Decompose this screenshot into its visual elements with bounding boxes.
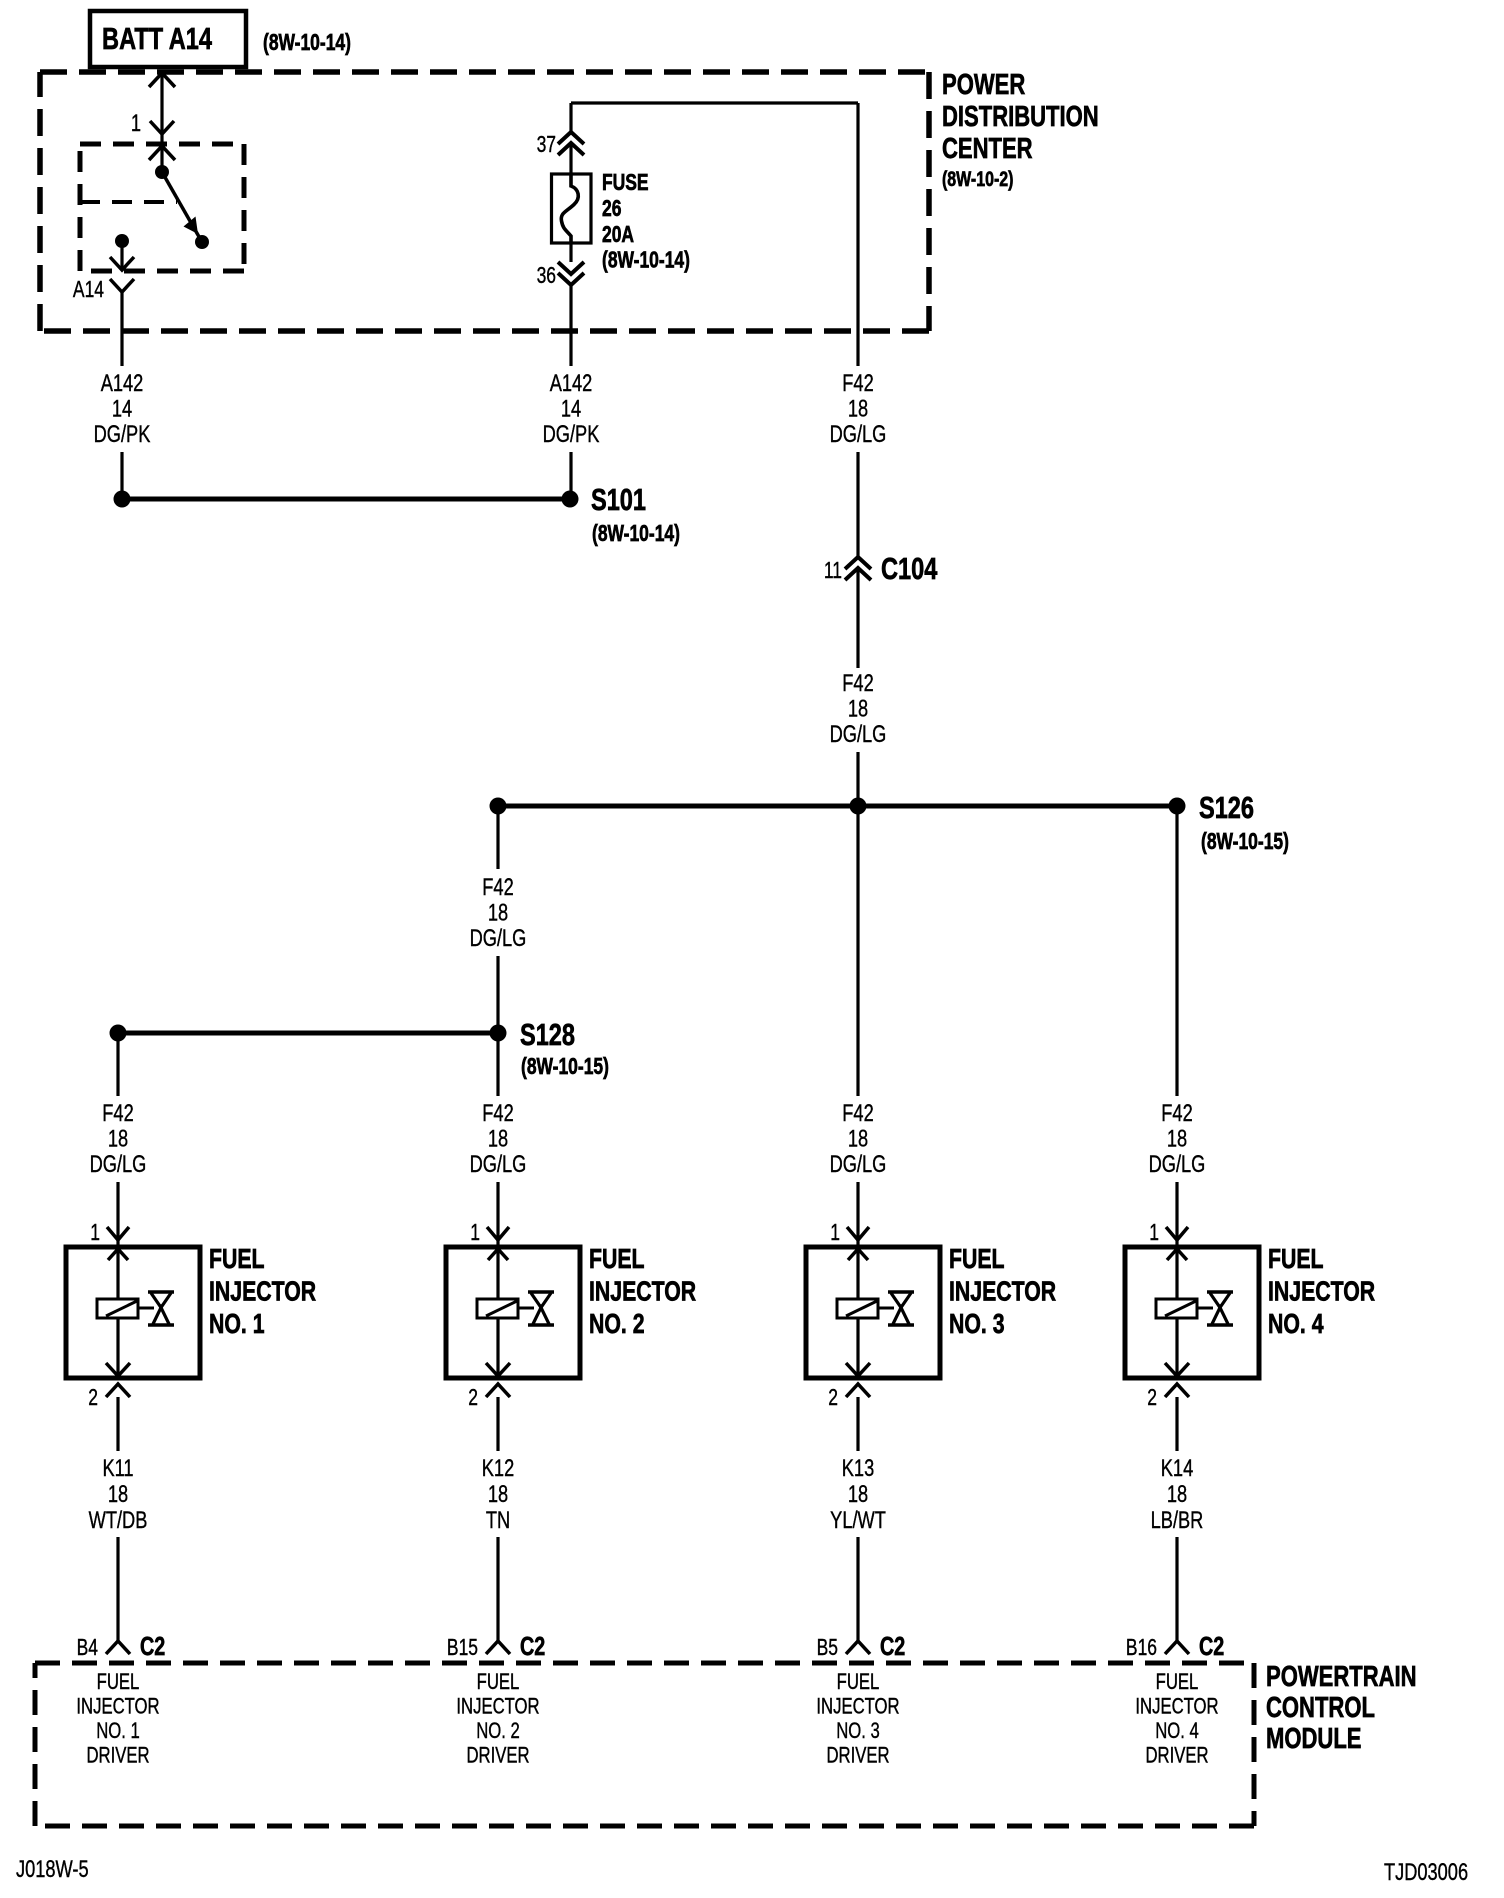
svg-text:C2: C2 [520,1631,545,1660]
svg-text:NO. 1: NO. 1 [96,1719,140,1744]
svg-text:(8W-10-14): (8W-10-14) [592,522,680,547]
svg-text:FUEL: FUEL [477,1670,520,1695]
svg-text:DG/LG: DG/LG [1149,1151,1206,1178]
svg-text:NO. 1: NO. 1 [209,1308,265,1340]
svg-text:26: 26 [602,197,621,222]
svg-text:A14: A14 [73,278,104,303]
svg-text:B15: B15 [447,1636,478,1661]
svg-text:K13: K13 [842,1455,874,1482]
svg-text:K11: K11 [102,1455,133,1482]
svg-text:11: 11 [824,559,842,584]
svg-text:DG/LG: DG/LG [830,721,887,748]
svg-text:DRIVER: DRIVER [86,1743,149,1768]
svg-text:F42: F42 [102,1100,133,1127]
svg-text:(8W-10-14): (8W-10-14) [602,248,690,273]
svg-text:INJECTOR: INJECTOR [76,1694,159,1719]
svg-text:DG/PK: DG/PK [94,421,151,448]
svg-text:YL/WT: YL/WT [830,1507,886,1534]
svg-text:POWER: POWER [942,69,1026,101]
svg-text:DG/LG: DG/LG [830,1151,887,1178]
svg-text:DRIVER: DRIVER [466,1743,529,1768]
svg-text:FUEL: FUEL [1268,1243,1324,1275]
svg-text:C2: C2 [140,1631,165,1660]
svg-text:18: 18 [488,1125,508,1152]
svg-text:INJECTOR: INJECTOR [209,1276,316,1308]
svg-text:F42: F42 [482,1100,513,1127]
svg-text:DRIVER: DRIVER [826,1743,889,1768]
svg-text:LB/BR: LB/BR [1151,1507,1204,1534]
svg-text:MODULE: MODULE [1266,1723,1361,1755]
svg-text:A142: A142 [101,370,144,397]
svg-text:2: 2 [88,1386,98,1411]
svg-text:S128: S128 [520,1017,575,1052]
svg-text:DG/LG: DG/LG [470,925,527,952]
svg-text:NO. 4: NO. 4 [1268,1308,1324,1340]
svg-text:F42: F42 [842,670,873,697]
svg-text:DG/PK: DG/PK [543,421,600,448]
svg-text:B5: B5 [817,1636,838,1661]
svg-text:DG/LG: DG/LG [470,1151,527,1178]
svg-text:NO. 3: NO. 3 [836,1719,880,1744]
svg-text:2: 2 [1147,1386,1157,1411]
svg-text:DG/LG: DG/LG [90,1151,147,1178]
svg-text:1: 1 [90,1221,100,1246]
svg-text:INJECTOR: INJECTOR [1135,1694,1218,1719]
svg-text:NO. 2: NO. 2 [589,1308,645,1340]
svg-text:18: 18 [108,1125,128,1152]
svg-text:18: 18 [848,1481,868,1508]
svg-text:CONTROL: CONTROL [1266,1692,1375,1724]
svg-text:S101: S101 [591,482,646,517]
svg-text:18: 18 [488,899,508,926]
svg-text:1: 1 [830,1221,840,1246]
svg-text:F42: F42 [482,874,513,901]
svg-text:2: 2 [828,1386,838,1411]
svg-text:(8W-10-15): (8W-10-15) [1201,830,1289,855]
svg-text:18: 18 [1167,1125,1187,1152]
svg-text:18: 18 [488,1481,508,1508]
svg-text:18: 18 [848,395,868,422]
svg-text:18: 18 [848,1125,868,1152]
svg-text:INJECTOR: INJECTOR [456,1694,539,1719]
svg-text:FUEL: FUEL [949,1243,1005,1275]
svg-text:CENTER: CENTER [942,133,1033,165]
svg-text:POWERTRAIN: POWERTRAIN [1266,1661,1417,1693]
svg-text:TJD03006: TJD03006 [1384,1859,1468,1886]
svg-text:NO. 4: NO. 4 [1155,1719,1199,1744]
svg-text:J018W-5: J018W-5 [16,1856,89,1883]
svg-text:A142: A142 [550,370,593,397]
svg-text:FUEL: FUEL [97,1670,140,1695]
svg-text:F42: F42 [842,370,873,397]
svg-text:FUEL: FUEL [1156,1670,1199,1695]
svg-text:INJECTOR: INJECTOR [589,1276,696,1308]
svg-text:20A: 20A [602,223,634,248]
svg-text:K14: K14 [1161,1455,1194,1482]
svg-text:TN: TN [486,1507,510,1534]
svg-text:NO. 3: NO. 3 [949,1308,1005,1340]
svg-text:K12: K12 [482,1455,514,1482]
svg-text:37: 37 [537,133,556,158]
svg-text:2: 2 [468,1386,478,1411]
svg-text:F42: F42 [842,1100,873,1127]
svg-text:14: 14 [561,395,581,422]
svg-text:DISTRIBUTION: DISTRIBUTION [942,101,1099,133]
svg-text:C104: C104 [881,551,938,586]
svg-text:INJECTOR: INJECTOR [949,1276,1056,1308]
svg-text:1: 1 [1149,1221,1159,1246]
svg-text:FUEL: FUEL [837,1670,880,1695]
svg-text:FUEL: FUEL [209,1243,265,1275]
svg-text:18: 18 [848,695,868,722]
svg-text:F42: F42 [1161,1100,1192,1127]
svg-text:36: 36 [537,264,556,289]
svg-text:18: 18 [108,1481,128,1508]
svg-text:B16: B16 [1126,1636,1157,1661]
svg-text:C2: C2 [1199,1631,1224,1660]
svg-text:(8W-10-2): (8W-10-2) [942,167,1013,191]
svg-text:C2: C2 [880,1631,905,1660]
svg-text:14: 14 [112,395,132,422]
svg-text:FUSE: FUSE [602,171,649,196]
svg-text:1: 1 [131,110,141,137]
svg-text:B4: B4 [77,1636,98,1661]
svg-text:BATT A14: BATT A14 [102,21,212,56]
svg-text:S126: S126 [1199,790,1254,825]
svg-text:(8W-10-15): (8W-10-15) [521,1055,609,1080]
svg-text:1: 1 [470,1221,480,1246]
svg-text:18: 18 [1167,1481,1187,1508]
svg-text:NO. 2: NO. 2 [476,1719,520,1744]
svg-text:(8W-10-14): (8W-10-14) [263,31,351,56]
svg-text:INJECTOR: INJECTOR [1268,1276,1375,1308]
svg-text:DRIVER: DRIVER [1145,1743,1208,1768]
svg-text:WT/DB: WT/DB [89,1507,148,1534]
svg-text:INJECTOR: INJECTOR [816,1694,899,1719]
svg-text:FUEL: FUEL [589,1243,645,1275]
svg-text:DG/LG: DG/LG [830,421,887,448]
